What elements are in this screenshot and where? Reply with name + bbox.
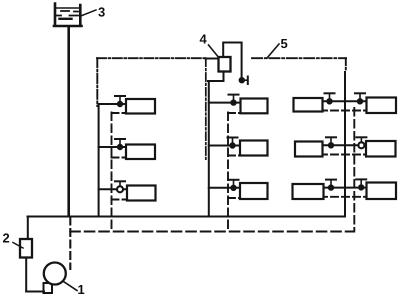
boiler 2 xyxy=(20,239,32,258)
valve (air vent) xyxy=(239,77,248,85)
valve M3 xyxy=(229,180,239,191)
wire: supply pipe L1 xyxy=(99,103,126,105)
label 1 leader xyxy=(64,282,78,291)
svg-text:2: 2 xyxy=(3,231,10,246)
label 3 leader xyxy=(82,10,96,16)
wire: supply pipe M1 xyxy=(209,102,241,104)
radiator RR3 xyxy=(367,183,397,200)
wire: air collector outlet down xyxy=(223,72,225,81)
wire: solid supply main xyxy=(28,216,346,218)
valve RL2 xyxy=(326,137,336,148)
radiator RR2 xyxy=(366,141,396,157)
wire: outlet horizontal to riser xyxy=(208,80,224,82)
wire: supply pipe R2 xyxy=(323,144,367,146)
radiator M3 xyxy=(240,183,268,199)
wire: chain corner right vertical xyxy=(345,58,347,72)
radiator L2 xyxy=(126,145,155,160)
wire: boiler to bottom pipe xyxy=(25,258,27,292)
valve L1 xyxy=(115,96,125,107)
wire: supply pipe L3 xyxy=(99,188,127,190)
wire: right return riser (dashed) xyxy=(353,108,355,232)
wire: middle riser xyxy=(208,81,210,216)
svg-text:1: 1 xyxy=(78,282,85,297)
valve RR2 xyxy=(356,137,366,148)
wire: supply pipe R3 xyxy=(324,187,367,189)
valve RR3 xyxy=(356,179,366,190)
wire: top chain main (right segment) xyxy=(252,57,346,59)
wire: left return stub row3 xyxy=(112,199,128,201)
wire: bottom pipe to pump xyxy=(26,291,44,293)
wire: middle return riser (dashed) xyxy=(227,113,229,232)
radiator RL3 xyxy=(293,184,324,199)
pump 1 xyxy=(44,263,66,294)
valve RL1 xyxy=(325,93,335,104)
air collector 4 xyxy=(219,57,231,72)
wire: right riser xyxy=(344,72,346,216)
wire: supply pipe R1 xyxy=(323,100,367,102)
label 2 leader xyxy=(13,243,23,249)
wire: left riser xyxy=(98,104,100,216)
valve RL3 xyxy=(326,180,336,191)
radiator M2 xyxy=(240,141,268,156)
valve L2 xyxy=(115,139,125,150)
svg-text:5: 5 xyxy=(281,36,288,51)
wire: left return stub row1 xyxy=(112,112,127,114)
wire: right return row3 xyxy=(320,196,367,198)
radiator M1 xyxy=(241,99,268,114)
wire: left return riser (dashed) xyxy=(111,113,113,232)
valve L3 xyxy=(115,181,125,192)
wire: right return row2 xyxy=(320,154,366,156)
label 4 leader xyxy=(209,45,219,57)
label 5 leader xyxy=(267,44,279,58)
wire: pipe into air collector xyxy=(206,58,219,60)
wire: supply pipe L2 xyxy=(99,146,126,148)
valve M1 xyxy=(229,95,239,106)
wire: right return row1 xyxy=(320,110,367,112)
wire: chain stub left vertical xyxy=(96,58,98,106)
radiator L1 xyxy=(126,99,155,114)
wire: middle return stub row2 xyxy=(228,155,240,157)
wire: middle return stub row3 xyxy=(228,197,240,199)
wire: dashed return down to pump xyxy=(69,218,71,270)
wire: dashed return main xyxy=(70,230,353,232)
valve M2 xyxy=(228,138,238,149)
wire: top chain main (left segment) xyxy=(97,57,206,59)
radiator RR1 xyxy=(367,98,397,114)
wire: supply pipe M2 xyxy=(209,145,240,147)
radiator L3 xyxy=(127,186,156,201)
wire: chain vertical mid xyxy=(205,58,207,160)
wire: middle return stub row1 xyxy=(228,112,241,114)
wire: air collector top loop xyxy=(223,43,241,78)
radiator RL2 xyxy=(295,142,323,157)
radiator RL1 xyxy=(294,98,323,112)
valve RR1 xyxy=(355,93,365,104)
wire: main down to boiler xyxy=(27,217,29,240)
wire: left return stub row2 xyxy=(112,157,127,159)
expansion tank 3 xyxy=(54,4,82,27)
svg-text:3: 3 xyxy=(98,5,105,20)
svg-text:4: 4 xyxy=(200,32,208,47)
wire: supply pipe M3 xyxy=(209,187,240,189)
wire: tank riser pipe xyxy=(67,27,70,216)
